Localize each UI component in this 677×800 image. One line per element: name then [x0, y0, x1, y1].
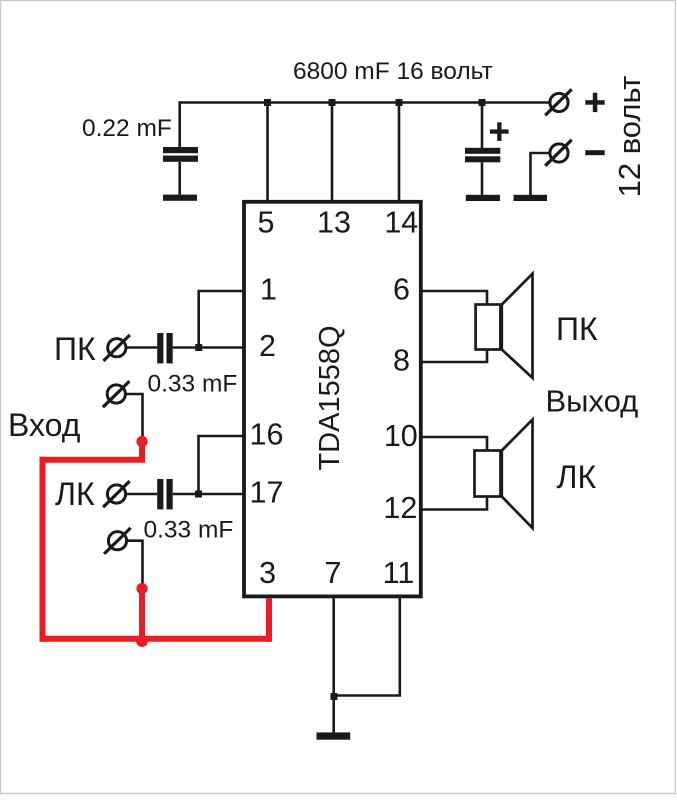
svg-text:13: 13: [317, 205, 351, 239]
terminal ЛК ground: [104, 528, 131, 554]
plus polarity mark at C2: [490, 129, 509, 133]
svg-text:3: 3: [259, 556, 276, 590]
svg-text:0.33 mF: 0.33 mF: [144, 517, 234, 544]
svg-text:1: 1: [260, 272, 277, 306]
wire ЛК ground terminal to red node B: [126, 541, 142, 586]
svg-text:12: 12: [383, 491, 417, 525]
svg-text:0.33 mF: 0.33 mF: [148, 371, 238, 398]
svg-text:ЛК: ЛК: [55, 476, 95, 512]
svg-text:7: 7: [325, 556, 342, 590]
svg-text:6: 6: [393, 272, 410, 306]
terminal V+: [545, 89, 572, 115]
capacitor C4 0.33 mF plates: [157, 479, 173, 509]
wire ПК terminal to C3: [126, 346, 158, 349]
terminal ПК ground: [103, 381, 129, 407]
ground bar under C1: [163, 195, 197, 201]
node A red: [136, 436, 147, 447]
node rail-pin5: [264, 99, 271, 106]
svg-text:ПК: ПК: [54, 331, 96, 367]
svg-text:Вход: Вход: [8, 407, 81, 443]
wire red node B down: [139, 589, 145, 642]
wire C4 to pin 17: [173, 493, 244, 496]
svg-text:TDA1558Q: TDA1558Q: [314, 325, 346, 470]
capacitor C2 6800 mF bottom lead: [481, 162, 484, 195]
wire red left vertical: [40, 457, 46, 642]
svg-text:Выход: Выход: [546, 384, 639, 419]
speaker ПК cone: [502, 274, 533, 378]
red ground net wires: [40, 441, 270, 642]
wire pin 13 to rail: [331, 103, 334, 203]
terminal V-: [545, 140, 572, 166]
ground bar under C2: [466, 195, 500, 201]
capacitor C1 0.22 mF top lead: [178, 101, 181, 147]
wire pin 10 to speaker ЛК: [421, 437, 487, 451]
svg-text:8: 8: [393, 344, 410, 378]
speaker ЛК cone: [502, 420, 533, 529]
ground bottom bar: [317, 732, 351, 739]
capacitor C1 0.22 mF plates: [163, 147, 198, 153]
svg-text:10: 10: [384, 419, 418, 453]
wire pin 5 to rail: [266, 103, 269, 203]
svg-text:14: 14: [384, 205, 418, 239]
svg-text:0.22 mF: 0.22 mF: [82, 115, 172, 142]
wire pin 7 to ground: [332, 598, 335, 733]
plus sign of supply terminal: [585, 100, 604, 105]
node rail-C2: [479, 99, 486, 106]
wire junction to pin 16 elbow: [199, 436, 244, 494]
wire minus terminal to ground: [531, 153, 550, 195]
svg-text:11: 11: [383, 556, 415, 590]
capacitor C3 0.33 mF plates: [157, 333, 173, 363]
wire red bottom horizontal: [40, 636, 270, 642]
wire pin 11 down: [334, 598, 400, 696]
ground bar under minus terminal: [514, 195, 548, 201]
svg-text:ЛК: ЛК: [557, 459, 597, 495]
capacitor C2 6800 mF top lead: [481, 103, 484, 149]
terminal ПК input: [103, 335, 129, 361]
svg-text:17: 17: [250, 476, 284, 510]
wire pin 8 to speaker ПК: [421, 350, 487, 363]
node C3 output: [195, 344, 202, 351]
wire pin 6 to speaker ПК: [421, 291, 487, 305]
wire top supply rail: [180, 101, 550, 104]
svg-text:16: 16: [250, 418, 284, 452]
node pin7-pin11: [331, 693, 338, 700]
svg-text:ПК: ПК: [556, 311, 598, 347]
node C4 output: [195, 491, 202, 498]
speaker ЛК driver box: [475, 451, 501, 497]
minus sign of supply terminal: [585, 150, 604, 155]
svg-text:12 вольт: 12 вольт: [612, 76, 647, 198]
op-amp U1 TDA1558Q body: [244, 202, 421, 597]
wire C3 to pin 2: [173, 346, 244, 349]
svg-text:2: 2: [259, 329, 276, 363]
wire junction to pin 1 elbow: [199, 291, 244, 348]
node rail-pin13: [329, 99, 336, 106]
wire ПК ground terminal to red node A: [125, 394, 142, 439]
capacitor C1 0.22 mF bottom lead: [178, 162, 181, 195]
speaker ПК driver box: [476, 305, 501, 350]
node B red: [136, 583, 147, 594]
svg-text:5: 5: [258, 205, 275, 239]
wire pin 14 to rail: [398, 103, 401, 203]
wire red to pin 3: [266, 598, 272, 642]
node C red: [136, 635, 148, 647]
wire red node A down: [40, 441, 143, 460]
svg-text:6800 mF 16 вольт: 6800 mF 16 вольт: [293, 58, 493, 85]
node rail-pin14: [396, 99, 403, 106]
capacitor C2 6800 mF plates: [465, 148, 500, 154]
wire pin 12 to speaker ЛК: [421, 497, 487, 510]
wire ЛК terminal to C4: [125, 493, 157, 496]
terminal ЛК input: [103, 481, 130, 507]
